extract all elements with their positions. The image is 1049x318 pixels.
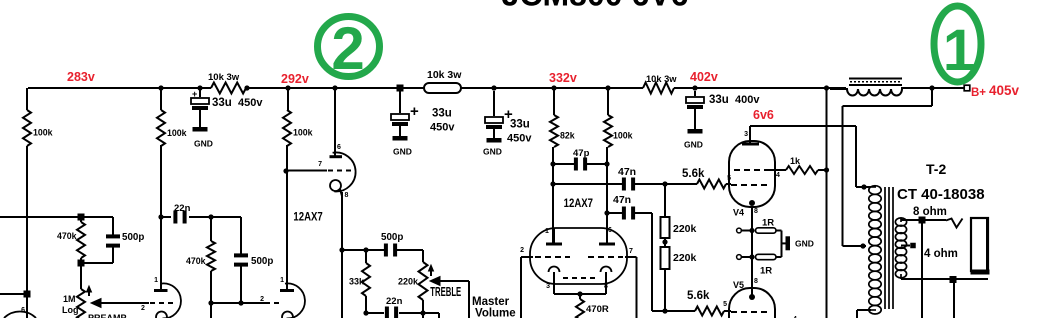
svg-text:V4: V4 bbox=[733, 208, 744, 218]
wire V3a grid down bbox=[520, 257, 522, 318]
label T-2 bbox=[926, 161, 946, 177]
wire 1R2 to gnd bbox=[776, 256, 782, 258]
capacitor 500p (2) bbox=[234, 217, 273, 303]
svg-text:PREAMP: PREAMP bbox=[88, 313, 127, 318]
svg-text:+: + bbox=[192, 89, 197, 99]
node V5 grid bbox=[662, 308, 667, 313]
svg-text:402v: 402v bbox=[690, 70, 718, 84]
grid CF wire bbox=[286, 170, 327, 172]
capacitor 22n (2) bbox=[385, 296, 423, 318]
cathode V2a bbox=[282, 312, 293, 318]
wire tone bottom bbox=[363, 310, 425, 318]
cathode V1b bbox=[156, 312, 167, 318]
svg-text:2: 2 bbox=[141, 305, 145, 312]
wire V4 plate to OT bbox=[750, 126, 871, 190]
wiper arrow treble bbox=[430, 277, 469, 300]
svg-text:1k: 1k bbox=[790, 156, 801, 166]
resistor 1R (2) bbox=[737, 254, 776, 276]
svg-text:5.6k: 5.6k bbox=[687, 290, 710, 302]
resistor 220k (1) bbox=[661, 184, 697, 238]
anode CF bbox=[330, 144, 343, 157]
node CF grid tap bbox=[283, 168, 288, 173]
svg-text:6: 6 bbox=[337, 144, 341, 151]
node 470k-2 top bbox=[208, 214, 213, 219]
control grid V5 bbox=[731, 311, 768, 313]
svg-text:7: 7 bbox=[318, 161, 322, 168]
svg-text:6: 6 bbox=[21, 307, 25, 314]
resistor 33k bbox=[349, 250, 370, 313]
svg-text:292v: 292v bbox=[281, 72, 309, 86]
svg-text:8: 8 bbox=[345, 192, 349, 199]
svg-text:10k 3w: 10k 3w bbox=[208, 72, 240, 83]
svg-text:10k 3w: 10k 3w bbox=[646, 74, 677, 84]
svg-text:8 ohm: 8 ohm bbox=[913, 206, 947, 218]
svg-text:4: 4 bbox=[776, 172, 780, 179]
wire V5 cathode lead bbox=[733, 228, 758, 290]
title JCM800 6V6 (clipped) bbox=[502, 0, 689, 13]
svg-text:+: + bbox=[410, 103, 419, 120]
svg-text:100k: 100k bbox=[293, 128, 313, 138]
svg-text:1: 1 bbox=[280, 277, 284, 284]
grid V2a bbox=[260, 296, 282, 303]
transformer T-2 secondary winding bbox=[895, 218, 906, 279]
svg-text:470R: 470R bbox=[586, 304, 609, 315]
svg-text:47p: 47p bbox=[573, 148, 590, 159]
wire 8 ohm tap bbox=[901, 206, 947, 220]
svg-text:450v: 450v bbox=[507, 133, 532, 145]
svg-text:1: 1 bbox=[545, 228, 549, 235]
svg-text:6v6: 6v6 bbox=[753, 108, 774, 122]
svg-text:220k: 220k bbox=[673, 252, 697, 264]
resistor 1k screen V4 bbox=[775, 156, 827, 174]
svg-text:1M: 1M bbox=[63, 294, 76, 304]
node square V1a plate bbox=[24, 291, 31, 298]
svg-text:1: 1 bbox=[943, 18, 975, 83]
capacitor 500p (3) bbox=[381, 232, 423, 257]
resistor 10k 3w (zigzag 1) bbox=[208, 72, 246, 94]
svg-text:7: 7 bbox=[629, 248, 633, 255]
node square secondary bottom bbox=[950, 276, 957, 283]
tap 4 ohm bbox=[901, 243, 958, 260]
wire B+ rail bbox=[28, 87, 964, 89]
svg-text:500p: 500p bbox=[381, 232, 403, 243]
wire V3b grid down bbox=[636, 257, 638, 318]
tube V4 6V6 bbox=[729, 141, 775, 207]
capacitor 47n (2) bbox=[604, 194, 652, 220]
marker circled 2 bbox=[318, 15, 380, 82]
anode V3b bbox=[599, 227, 615, 244]
svg-text:6: 6 bbox=[608, 227, 612, 234]
wire CF plate lead bbox=[334, 88, 336, 157]
svg-text:47n: 47n bbox=[618, 166, 636, 178]
svg-text:3: 3 bbox=[744, 131, 748, 138]
svg-text:5.6k: 5.6k bbox=[682, 168, 705, 180]
wire B+ to terminal bbox=[932, 87, 964, 89]
cathode V3b bbox=[601, 267, 612, 295]
node rail junction dots bbox=[158, 85, 934, 90]
resistor 470k (1) bbox=[57, 217, 85, 263]
svg-text:450v: 450v bbox=[430, 122, 455, 134]
svg-text:Log: Log bbox=[62, 305, 79, 315]
label 12AX7 (2) bbox=[564, 197, 593, 210]
capacitor 22n (1) bbox=[161, 203, 241, 224]
svg-text:33u: 33u bbox=[212, 97, 232, 109]
svg-text:12AX7: 12AX7 bbox=[293, 211, 322, 224]
svg-text:4 ohm: 4 ohm bbox=[924, 248, 958, 260]
wire 1R1 to gnd bbox=[776, 231, 782, 258]
tube V1a (partial) bbox=[4, 307, 36, 318]
capacitor 500p (1) bbox=[81, 217, 144, 263]
svg-text:47n: 47n bbox=[613, 194, 631, 206]
control grid V4 bbox=[731, 184, 768, 186]
transformer T-2 core bbox=[885, 187, 893, 309]
jack tip contact bbox=[946, 219, 963, 228]
svg-text:10k 3w: 10k 3w bbox=[427, 69, 462, 81]
node tone stack top bbox=[339, 247, 344, 252]
cathode V5 bbox=[749, 288, 755, 300]
cathode V3a bbox=[546, 267, 559, 295]
wire V1b plate lead bbox=[160, 145, 162, 290]
resistor 100k (1) bbox=[23, 88, 53, 293]
svg-text:405v: 405v bbox=[989, 83, 1020, 98]
speaker jack bbox=[971, 218, 990, 275]
resistor 1R (1) bbox=[737, 218, 776, 234]
svg-text:22n: 22n bbox=[386, 296, 403, 307]
svg-text:33u: 33u bbox=[510, 119, 530, 131]
anode V1b bbox=[154, 277, 168, 291]
ground GND V4 bbox=[782, 236, 814, 250]
svg-text:CT 40-18038: CT 40-18038 bbox=[897, 186, 985, 203]
svg-text:1: 1 bbox=[154, 277, 158, 284]
capacitor 33u 400v bbox=[684, 91, 760, 150]
svg-text:GND: GND bbox=[194, 139, 213, 149]
capacitor 33u 450v (2) bbox=[391, 91, 455, 157]
transformer T-2 primary winding bbox=[869, 186, 881, 314]
wire grid bus V2a bbox=[208, 300, 265, 318]
svg-text:TREBLE: TREBLE bbox=[430, 286, 461, 299]
svg-text:470k: 470k bbox=[57, 231, 77, 241]
node V4 grid bbox=[662, 181, 667, 186]
resistor 100k (3) bbox=[283, 88, 313, 146]
inductor choke core bbox=[849, 79, 902, 86]
label 292v bbox=[281, 72, 309, 86]
svg-text:1R: 1R bbox=[762, 218, 774, 229]
wire from previous stage bbox=[0, 216, 81, 218]
label B+ 405v bbox=[971, 83, 1020, 99]
resistor 100k (4) bbox=[604, 88, 633, 244]
tube V1b bbox=[161, 283, 181, 318]
svg-text:470k: 470k bbox=[186, 256, 206, 266]
svg-text:8: 8 bbox=[754, 278, 758, 285]
svg-text:33u: 33u bbox=[432, 108, 452, 120]
wire V3 cathode join bbox=[554, 291, 606, 296]
node 220k junction bbox=[662, 238, 667, 247]
svg-text:1R: 1R bbox=[760, 266, 772, 277]
screen grid V4 bbox=[734, 170, 780, 179]
wire secondary bottom bbox=[901, 278, 988, 280]
svg-text:8: 8 bbox=[604, 283, 608, 290]
wire 8 ohm down bbox=[921, 223, 923, 318]
wire 47n-2 to V5 grid bbox=[651, 213, 653, 311]
svg-text:332v: 332v bbox=[549, 71, 577, 85]
wire V2a plate lead bbox=[286, 145, 288, 290]
tube V3 12AX7 phase inverter bbox=[530, 228, 627, 284]
resistor 470k (2) bbox=[186, 217, 215, 303]
svg-text:GND: GND bbox=[483, 147, 502, 157]
grid CF bbox=[318, 161, 353, 171]
resistor 5.6k (1) bbox=[665, 168, 731, 189]
grid V3a bbox=[520, 247, 570, 257]
svg-text:100k: 100k bbox=[33, 128, 53, 138]
potentiometer 220k treble bbox=[398, 250, 434, 313]
cathode V4 bbox=[733, 200, 758, 231]
svg-text:100k: 100k bbox=[613, 131, 633, 141]
tube V2a bbox=[285, 283, 305, 318]
svg-text:GND: GND bbox=[684, 140, 703, 150]
capacitor 33u 450v (3) bbox=[483, 91, 532, 157]
capacitor 47p bbox=[550, 148, 609, 171]
wire input to V1a plate bbox=[0, 293, 27, 295]
node square 8 ohm bbox=[919, 217, 926, 224]
wire B+ drop to OT center tap bbox=[843, 88, 933, 249]
svg-text:2: 2 bbox=[520, 247, 524, 254]
wire master volume bbox=[468, 281, 470, 318]
anode V4 bbox=[742, 126, 759, 144]
label 332v bbox=[549, 71, 577, 85]
cathode CF bbox=[330, 180, 349, 199]
resistor 82k bbox=[550, 88, 575, 244]
wire CF cathode down bbox=[341, 192, 343, 318]
label 12AX7 (1) bbox=[293, 211, 322, 224]
svg-text:8: 8 bbox=[754, 208, 758, 215]
svg-text:22n: 22n bbox=[174, 203, 191, 214]
svg-text:Master: Master bbox=[472, 296, 510, 308]
grid V3b bbox=[588, 248, 637, 257]
wire to bass pot bbox=[423, 313, 439, 318]
resistor 220k (2) bbox=[661, 247, 697, 311]
svg-text:GND: GND bbox=[393, 147, 412, 157]
resistor 10k 3w (box) bbox=[424, 69, 462, 93]
wire tone top bbox=[342, 247, 384, 252]
wire V5 plate to OT bbox=[857, 310, 871, 318]
wire V1a plate lead bbox=[26, 294, 28, 318]
svg-text:500p: 500p bbox=[122, 232, 144, 243]
node square at 33u cap 2 bbox=[397, 85, 404, 92]
svg-text:283v: 283v bbox=[67, 70, 95, 84]
capacitor 33u 450v (1) bbox=[191, 88, 263, 149]
label 6v6 bbox=[753, 108, 774, 122]
resistor 5.6k (2) bbox=[652, 290, 731, 316]
anode V3a bbox=[545, 228, 562, 244]
svg-text:2: 2 bbox=[331, 15, 364, 82]
anode V2a bbox=[280, 277, 294, 291]
wire common down bbox=[953, 282, 955, 318]
svg-text:450v: 450v bbox=[238, 97, 263, 109]
resistor 470R tail bbox=[576, 294, 609, 318]
svg-text:500p: 500p bbox=[251, 256, 273, 267]
marker circled 1 bbox=[934, 6, 981, 83]
tube V5 6V6 bbox=[729, 288, 775, 318]
resistor 10k 3w (zigzag 2) bbox=[643, 74, 677, 94]
grid V1b bbox=[150, 302, 177, 304]
resistor 100k (2) bbox=[157, 88, 187, 146]
heater dashes V3 bbox=[563, 277, 596, 279]
node 22n tap bbox=[158, 214, 163, 219]
inductor choke winding bbox=[830, 89, 902, 96]
svg-text:33u: 33u bbox=[709, 94, 729, 106]
wiper arrow preamp bbox=[88, 299, 149, 318]
wire screen supply drop bbox=[824, 88, 829, 318]
svg-text:100k: 100k bbox=[167, 128, 187, 138]
capacitor 47n (1) bbox=[550, 166, 665, 191]
svg-text:2: 2 bbox=[260, 296, 264, 303]
svg-text:T-2: T-2 bbox=[926, 161, 946, 177]
label Master Volume bbox=[472, 296, 516, 318]
svg-text:220k: 220k bbox=[673, 223, 697, 235]
label CT 40-18038 bbox=[897, 186, 985, 203]
svg-text:220k: 220k bbox=[398, 277, 419, 287]
node square 470k bottom bbox=[78, 260, 85, 267]
svg-text:GND: GND bbox=[795, 239, 814, 249]
svg-text:Volume: Volume bbox=[475, 308, 516, 318]
screen pin V5 bbox=[793, 316, 801, 318]
svg-text:82k: 82k bbox=[560, 131, 575, 141]
svg-text:3: 3 bbox=[546, 283, 550, 290]
tube V2b cathode follower bbox=[333, 152, 356, 191]
node square 470k top bbox=[78, 214, 85, 221]
svg-text:33k: 33k bbox=[349, 277, 365, 287]
svg-text:400v: 400v bbox=[735, 94, 760, 106]
svg-text:JCM800 6V6: JCM800 6V6 bbox=[502, 0, 689, 13]
svg-text:5: 5 bbox=[723, 301, 727, 308]
label 402v bbox=[690, 70, 718, 84]
label 283v bbox=[67, 70, 95, 84]
terminal B+ square bbox=[964, 85, 970, 91]
svg-text:12AX7: 12AX7 bbox=[564, 197, 593, 210]
svg-text:B+: B+ bbox=[971, 87, 986, 99]
potentiometer 1M Log bbox=[62, 263, 92, 318]
